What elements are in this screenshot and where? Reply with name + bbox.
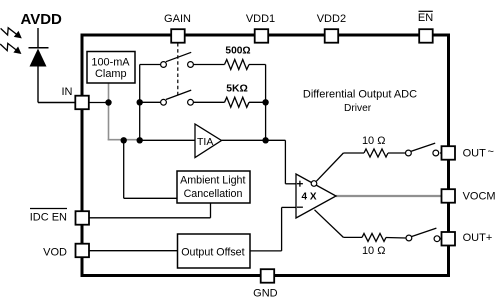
- svg-text:Driver: Driver: [344, 103, 372, 114]
- svg-text:10 Ω: 10 Ω: [362, 135, 386, 147]
- svg-text:500Ω: 500Ω: [225, 45, 250, 56]
- svg-text:OUT+: OUT+: [463, 232, 493, 244]
- svg-text:VDD2: VDD2: [317, 13, 346, 25]
- svg-text:5KΩ: 5KΩ: [226, 84, 248, 95]
- svg-text:Clamp: Clamp: [95, 68, 126, 80]
- svg-text:AVDD: AVDD: [21, 11, 63, 28]
- svg-text:~: ~: [488, 146, 494, 158]
- svg-text:Output Offset: Output Offset: [181, 246, 244, 258]
- svg-text:OUT: OUT: [463, 147, 487, 159]
- svg-text:Ambient Light: Ambient Light: [180, 174, 245, 186]
- svg-text:IDC EN: IDC EN: [30, 212, 67, 224]
- svg-text:VOCM: VOCM: [463, 191, 496, 203]
- svg-text:GAIN: GAIN: [164, 13, 191, 25]
- svg-text:VDD1: VDD1: [246, 13, 275, 25]
- svg-text:IN: IN: [62, 86, 73, 98]
- svg-text:100-mA: 100-mA: [91, 56, 130, 68]
- svg-text:Differential Output ADC: Differential Output ADC: [303, 88, 417, 100]
- svg-text:4 X: 4 X: [302, 192, 317, 203]
- svg-text:Cancellation: Cancellation: [184, 188, 243, 200]
- svg-text:TIA: TIA: [197, 136, 213, 148]
- svg-text:10 Ω: 10 Ω: [362, 245, 386, 257]
- svg-text:VOD: VOD: [43, 247, 67, 259]
- svg-text:EN: EN: [418, 12, 433, 24]
- svg-text:GND: GND: [253, 287, 278, 299]
